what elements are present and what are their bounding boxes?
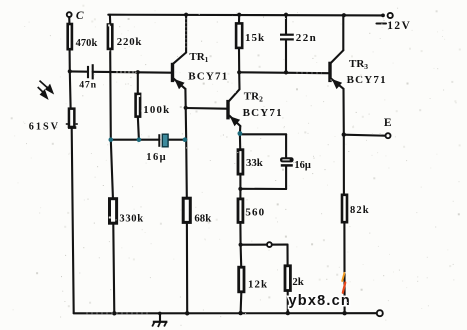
svg-text:560: 560 <box>245 207 265 219</box>
svg-text:16μ: 16μ <box>146 152 167 163</box>
svg-text:220k: 220k <box>117 36 142 48</box>
svg-text:82k: 82k <box>350 205 370 216</box>
svg-text:15k: 15k <box>245 32 265 44</box>
svg-text:33k: 33k <box>246 157 263 169</box>
svg-text:E: E <box>384 117 392 129</box>
svg-text:470k: 470k <box>76 38 98 49</box>
svg-text:100k: 100k <box>143 104 170 116</box>
svg-text:BCY71: BCY71 <box>347 74 387 86</box>
svg-text:47n: 47n <box>79 79 97 90</box>
svg-text:BCY71: BCY71 <box>243 107 283 119</box>
svg-text:16μ: 16μ <box>294 160 311 171</box>
svg-text:330k: 330k <box>119 214 143 225</box>
svg-text:22n: 22n <box>296 32 317 44</box>
svg-text:2k: 2k <box>292 276 303 288</box>
svg-text:ybx8.cn: ybx8.cn <box>289 293 351 309</box>
svg-text:C: C <box>76 10 84 22</box>
svg-text:12k: 12k <box>248 279 268 291</box>
svg-text:BCY71: BCY71 <box>188 71 228 83</box>
svg-text:12V: 12V <box>387 20 411 32</box>
svg-text:61SV: 61SV <box>29 121 60 132</box>
